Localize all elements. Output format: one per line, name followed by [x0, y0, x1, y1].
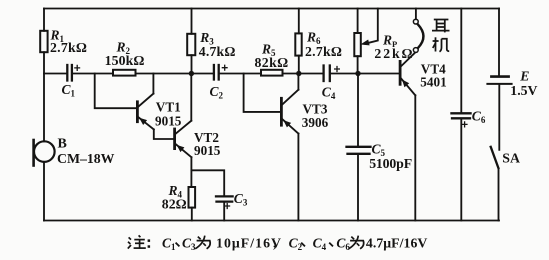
svg-text:4.7μF/16V: 4.7μF/16V [366, 236, 428, 251]
plus sign C4 [334, 66, 340, 72]
resistor R6 [298, 9, 300, 34]
capacitor C6 branch [460, 9, 462, 113]
plus sign C3 [224, 203, 230, 209]
resistor R3 [191, 9, 193, 34]
svg-text:C6: C6 [472, 108, 486, 125]
svg-text:82Ω: 82Ω [162, 196, 187, 211]
svg-text:C2: C2 [289, 236, 303, 253]
headphone jack [415, 9, 417, 20]
wire left rail lower [43, 162, 45, 221]
svg-text:2.7kΩ: 2.7kΩ [305, 44, 342, 59]
note line [128, 235, 428, 252]
svg-text:150kΩ: 150kΩ [105, 53, 145, 68]
svg-text:1.5V: 1.5V [510, 83, 537, 98]
VT3 emitter wire down [297, 134, 299, 221]
hanzi ER [434, 19, 449, 21]
hanzi WEI(for) 1 [195, 236, 210, 249]
hanzi JI [435, 37, 437, 51]
node RP/C4/C5/VT4 [355, 71, 360, 76]
transistor VT4 [399, 61, 402, 84]
hanzi WEI(for) 2 [349, 236, 364, 249]
VT2 collector wire up [190, 74, 192, 121]
branch to VT3 base [244, 74, 281, 112]
wire C3 to bottom rail [223, 203, 225, 221]
svg-text:E: E [519, 68, 529, 83]
battery E [498, 9, 500, 76]
svg-text:C3: C3 [234, 191, 248, 208]
plus sign C2 [222, 65, 228, 71]
wire R2 to C2 [136, 73, 213, 75]
svg-text:22kΩ: 22kΩ [374, 46, 414, 61]
plus sign C1 [74, 65, 467, 210]
dunhao [176, 243, 180, 247]
svg-text:,: , [273, 236, 276, 251]
wire R4 to bottom rail [191, 208, 193, 221]
wire C4 to VT4 base [331, 73, 399, 75]
VT2 emitter wire down [190, 157, 192, 187]
svg-text:C4: C4 [313, 236, 327, 253]
wire bottom rail [44, 220, 499, 222]
transistor VT2 [173, 129, 176, 149]
wire top rail [44, 8, 499, 10]
capacitor C1 [66, 65, 68, 81]
microphone diaphragm bar [32, 140, 35, 166]
transistor VT1 [136, 102, 139, 122]
svg-text:C6: C6 [336, 236, 350, 253]
svg-text:4.7kΩ: 4.7kΩ [199, 44, 236, 59]
svg-text:82kΩ: 82kΩ [255, 55, 289, 70]
svg-text:VT1: VT1 [156, 100, 181, 115]
capacitor C5 [357, 74, 359, 146]
RP wiper [368, 9, 378, 44]
svg-text:C1: C1 [162, 236, 176, 253]
switch SA blade [491, 147, 499, 168]
svg-text:5100pF: 5100pF [369, 156, 412, 171]
resistor R5 [261, 70, 283, 76]
wire left rail upper [43, 9, 45, 31]
resistor R1 [40, 31, 47, 52]
label erji (headphone) hanzi [432, 20, 450, 52]
wire C2 to R5 [220, 73, 261, 75]
capacitor C2 [213, 65, 215, 80]
wire C1 input [44, 73, 66, 75]
svg-text:9015: 9015 [194, 143, 221, 158]
potentiometer RP [357, 9, 359, 34]
svg-text:B: B [58, 136, 67, 151]
svg-text:SA: SA [502, 150, 520, 165]
svg-text:C4: C4 [322, 85, 336, 102]
node R3/R2/C2/VT2 [189, 71, 194, 76]
wire C5 to bottom rail [357, 155, 359, 221]
capacitor C3 [216, 195, 233, 197]
node A branch down to VT1 base [95, 74, 136, 109]
plus sign C6 [462, 121, 468, 127]
transistor VT3 [280, 98, 283, 125]
wire emitter node to C3 [191, 170, 224, 195]
svg-text:C1: C1 [62, 82, 76, 99]
node R6/R5/C4/VT3 [296, 71, 301, 76]
VT1 emitter wire to VT2 base [154, 129, 174, 139]
VT4 emitter wire down [414, 95, 416, 220]
svg-text:CM–18W: CM–18W [57, 151, 115, 166]
svg-text:C3: C3 [182, 236, 196, 253]
wire C1 to R2 [73, 73, 113, 75]
svg-text:9015: 9015 [155, 114, 182, 129]
svg-text:3906: 3906 [302, 115, 329, 130]
wire left rail mid [43, 52, 45, 141]
svg-text:5401: 5401 [420, 75, 446, 90]
wire R5 to C4 [283, 73, 323, 75]
hanzi ZHU(note) [128, 235, 146, 248]
resistor R4 [189, 187, 196, 208]
capacitor C4 [322, 66, 324, 82]
svg-text:2.7kΩ: 2.7kΩ [50, 40, 87, 55]
microphone B [34, 141, 55, 162]
resistor R2 [113, 70, 136, 76]
svg-text:C2: C2 [210, 84, 224, 101]
